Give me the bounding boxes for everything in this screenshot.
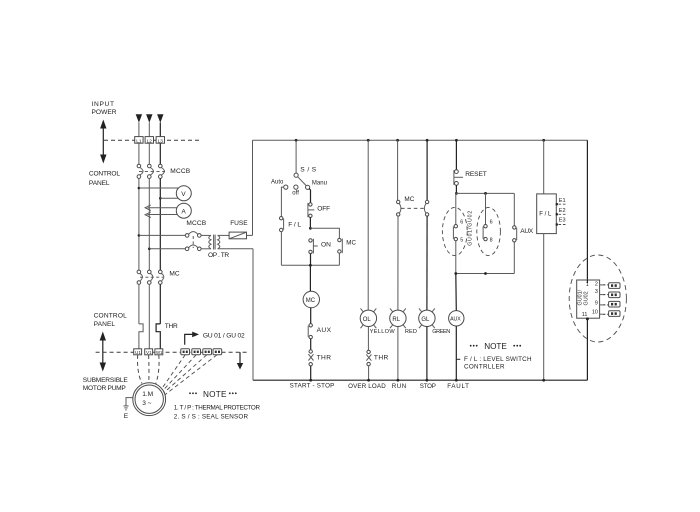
wire F/L column lower (543, 234, 545, 381)
pushbutton RESET (454, 170, 463, 186)
svg-text:OFF: OFF (317, 206, 330, 213)
wire stop column upper (426, 140, 428, 200)
node fault column top (455, 139, 458, 142)
wire run column upper (397, 140, 399, 200)
wire L2 to MCCB (148, 143, 150, 164)
wire voltmeter upper lead (139, 187, 178, 189)
label SUBMERSIBLE MOTOR PUMP (83, 377, 129, 392)
wire RESET to parallel group (455, 185, 457, 193)
svg-text:MCCB: MCCB (170, 168, 190, 175)
wire RL to bottom rail (397, 327, 399, 381)
wire aux contact branch lower (513, 242, 515, 274)
svg-text:INPUT: INPUT (92, 101, 115, 108)
wire L3 to MCCB (159, 143, 161, 164)
pump boundary dashed line (96, 351, 247, 353)
thermal relay THR element phase3 (156, 324, 160, 349)
contact MC (hold) (338, 238, 343, 253)
svg-text:POWER: POWER (92, 109, 117, 116)
wire auto branch lower (280, 232, 282, 266)
wire MC coil to AUX (310, 308, 312, 324)
label CONTROL PANEL (top) (89, 170, 120, 187)
node fault bottom (455, 379, 458, 382)
current transformer arrows on phase 2 (145, 205, 151, 218)
svg-text:PANEL: PANEL (94, 321, 116, 328)
svg-text:GREEN: GREEN (432, 329, 450, 335)
node run column top (396, 139, 399, 142)
terminal L2 (145, 137, 153, 145)
svg-text:FAULT: FAULT (447, 383, 469, 390)
contactor MC pole 1 (137, 270, 142, 284)
dashed lead pin 9 (603, 304, 609, 306)
wire THR to bottom rail (310, 366, 312, 380)
node stop column top (426, 139, 429, 142)
lamp OL yellow (360, 308, 376, 328)
control breaker MCCB pole 1 (185, 232, 201, 238)
svg-text:PANEL: PANEL (89, 180, 110, 187)
node V tap phase3 (159, 197, 162, 200)
wire fault contact 1 upper (455, 193, 457, 224)
svg-text:2: 2 (595, 282, 598, 288)
control ladder left edge lower (252, 249, 254, 380)
svg-text:AUX: AUX (450, 317, 461, 323)
svg-text:GU01/GU02: GU01/GU02 (467, 211, 473, 246)
motor 1M (133, 383, 166, 416)
terminal L3 (156, 137, 164, 145)
svg-text:1: 1 (586, 282, 589, 288)
svg-text:THR: THR (165, 323, 178, 330)
wire phase2 MC to terminal (148, 284, 150, 349)
svg-text:AUX: AUX (317, 327, 332, 334)
svg-text:CONTROL: CONTROL (94, 312, 128, 319)
contact MC (stop) (424, 200, 428, 216)
wire L2 MCCB to MC (148, 178, 150, 270)
wire parallel top bus (310, 228, 339, 238)
svg-text:V1: V1 (146, 350, 152, 355)
boundary down arrow (237, 352, 243, 369)
svg-text:U1: U1 (135, 350, 141, 355)
svg-text:3: 3 (595, 289, 598, 295)
wire through connector (top stub) (586, 280, 588, 283)
contact F/L (auto) (280, 217, 284, 232)
selector contact off (294, 185, 298, 189)
contact THR (start-stop) (308, 350, 313, 366)
node overload bottom (367, 379, 370, 382)
svg-text:S / S: S / S (300, 167, 316, 174)
wire OFF to junction (309, 218, 311, 229)
svg-text:6: 6 (490, 219, 493, 225)
dashed ellipse GU contact 1 (442, 207, 467, 255)
wire transformer secondary bottom to ladder bottom rail (218, 248, 253, 250)
node parallel top middle (484, 192, 487, 195)
node connector bottom (586, 317, 589, 320)
svg-text:RED: RED (405, 329, 417, 335)
wire parallel group bottom bus (456, 273, 515, 275)
connector box GU01/GU02 (577, 280, 600, 318)
contactor MC link dashes (140, 276, 163, 278)
wire phase2 to control MCCB (149, 248, 185, 250)
svg-text:E1: E1 (559, 198, 566, 204)
wire L1 MCCB to MC (138, 178, 140, 270)
pin 9 (595, 300, 603, 306)
wire sensor lead 1 (162, 355, 185, 389)
svg-text:FUSE: FUSE (230, 220, 248, 227)
svg-text:A: A (181, 208, 186, 215)
svg-text:CONTROL: CONTROL (89, 170, 120, 177)
node F/L column top (542, 139, 545, 142)
svg-text:GU02: GU02 (584, 291, 590, 305)
input power / control panel boundary double arrow (100, 120, 106, 164)
control ladder top rail (253, 139, 588, 141)
svg-text:START - STOP: START - STOP (290, 383, 335, 390)
contactor MC pole 2 (148, 270, 153, 284)
control breaker link dashes (192, 236, 194, 248)
svg-text:E3: E3 (559, 218, 566, 224)
wire GL to bottom rail (426, 327, 428, 381)
node F/L bottom (542, 379, 545, 382)
transformer OP.TR (209, 235, 220, 250)
sensor terminal 2 (192, 349, 201, 355)
svg-text:W1: W1 (156, 350, 163, 355)
wire THR to bottom rail (overload) (368, 366, 370, 380)
relay AUX (449, 311, 464, 326)
dashed lead pin 3 (603, 294, 609, 296)
pushbutton ON (309, 239, 318, 254)
svg-text:F / L : LEVEL SWITCH: F / L : LEVEL SWITCH (464, 356, 532, 363)
node parallel group top left (455, 192, 458, 195)
svg-text:MC: MC (404, 196, 414, 203)
wire transformer secondary top to fuse (218, 234, 230, 236)
electrode pin E3 (556, 218, 566, 226)
coil MC (303, 291, 319, 307)
wire fault contact 1 lower (455, 241, 457, 274)
svg-text:E: E (124, 413, 129, 420)
incoming supply arrow L1 (136, 114, 142, 136)
note dash mark (457, 358, 461, 360)
wire auto branch (281, 187, 283, 216)
svg-text:STOP: STOP (420, 383, 436, 390)
svg-text:MOTOR PUMP: MOTOR PUMP (83, 385, 127, 392)
wire stop column lower (426, 216, 428, 310)
terminal W1 (155, 349, 163, 355)
svg-text:MC: MC (306, 298, 316, 304)
svg-text:NOTE: NOTE (203, 390, 227, 399)
wire phase1 MC to THR (138, 284, 140, 324)
wire motor lead V (148, 355, 150, 383)
wire sensor lead 3 (164, 355, 207, 393)
main breaker MCCB pole 3 (159, 164, 165, 178)
svg-text:THR: THR (374, 354, 389, 361)
wire ammeter upper lead (148, 207, 178, 209)
control ladder bottom rail (253, 379, 587, 381)
contact AUX (fault) (513, 226, 517, 242)
svg-text:RESET: RESET (465, 171, 487, 178)
connector terminal 3 (609, 301, 620, 307)
pin 3 (595, 289, 603, 295)
terminal U1 (134, 349, 142, 355)
arrow to GU 01 / GU 02 sensors (185, 332, 199, 345)
main breaker MCCB pole 2 (148, 164, 154, 178)
wire phase1 to control MCCB (139, 234, 186, 236)
panel boundary dashed line (top) (104, 139, 199, 141)
level switch controller F/L box (537, 194, 557, 234)
ammeter A (176, 203, 191, 218)
svg-text:OVER LOAD: OVER LOAD (348, 383, 386, 390)
wire parallel group top bus (456, 192, 515, 194)
wire breaker to transformer primary top (201, 234, 211, 236)
contact AUX (start-stop) (308, 324, 312, 339)
electrode pin E1 (556, 198, 566, 205)
svg-text:CONTRLLER: CONTRLLER (464, 363, 505, 370)
control breaker MCCB pole 2 (185, 245, 201, 251)
connector terminal 2 (609, 292, 620, 298)
pushbutton OFF (308, 203, 314, 218)
wire junction to MC coil (309, 265, 311, 291)
sensor terminal 1 (181, 349, 190, 355)
wire ammeter lower lead (148, 214, 178, 216)
svg-text:1. T / P : THERMAL PROTECTOR: 1. T / P : THERMAL PROTECTOR (174, 405, 261, 412)
dashed lead pin 10 (603, 313, 609, 315)
incoming supply arrow L3 (157, 114, 163, 136)
wire voltmeter lower lead (160, 197, 178, 199)
svg-text:MC: MC (169, 270, 179, 277)
svg-text:Auto: Auto (271, 179, 284, 185)
svg-text:V: V (181, 191, 186, 198)
control ladder left edge upper (252, 140, 254, 235)
svg-text:3 ~: 3 ~ (142, 400, 151, 407)
svg-text:9: 9 (595, 300, 598, 306)
svg-text:8: 8 (490, 237, 493, 243)
wire phase3 MC to THR (159, 284, 161, 324)
svg-text:RL: RL (392, 317, 400, 323)
svg-text:F / L: F / L (288, 221, 301, 228)
wire parallel bottom bus (281, 264, 339, 266)
MCCB mechanical link dashes (139, 170, 165, 172)
svg-text:10: 10 (592, 310, 598, 316)
wire L3 MCCB to MC (159, 178, 161, 270)
svg-text:5: 5 (460, 237, 463, 243)
dashed ellipse GU contact 2 (477, 207, 501, 255)
svg-text:OP . TR: OP . TR (208, 252, 229, 259)
svg-text:2. S / S : SEAL SENSOR: 2. S / S : SEAL SENSOR (174, 413, 249, 420)
svg-text:MCCB: MCCB (186, 220, 206, 227)
node parallel bottom middle (484, 272, 487, 275)
svg-text:SUBMERSIBLE: SUBMERSIBLE (83, 377, 129, 384)
wire F/L column upper (543, 140, 545, 194)
svg-text:RUN: RUN (392, 383, 407, 390)
contactor MC pole 3 (159, 270, 164, 284)
control ladder right edge upper (586, 140, 588, 281)
svg-text:Manu: Manu (312, 181, 327, 187)
contact GU 6-5 (453, 225, 457, 241)
wire overload column (367, 140, 369, 310)
wire motor lead U (138, 355, 142, 384)
node control tap phase2 (148, 248, 151, 251)
node start-stop column top (295, 139, 298, 142)
node control tap phase1 (138, 234, 141, 237)
connector terminal 1 (609, 283, 620, 289)
lamp RL red (390, 308, 406, 328)
wire MC contact lower (338, 253, 340, 265)
wire AUX relay to bottom rail (455, 326, 457, 380)
wire run column lower (397, 216, 399, 310)
sensor terminal 3 (203, 349, 212, 355)
node V tap phase1 (138, 187, 141, 190)
wire sensor lead 2 (163, 355, 196, 391)
pin 2 (595, 282, 603, 288)
wire ON lower (310, 254, 312, 266)
svg-text:THR: THR (317, 355, 332, 362)
ground E (123, 398, 132, 420)
MC contacts link dashes (401, 207, 425, 209)
svg-text:off: off (292, 191, 299, 197)
control panel / pump boundary double arrow (100, 332, 106, 372)
svg-text:YELLOW: YELLOW (370, 329, 396, 335)
selector contact Auto (284, 185, 288, 189)
terminal V1 (145, 349, 153, 355)
control ladder right edge lower (586, 317, 588, 380)
svg-text:GL: GL (421, 317, 430, 323)
node start-stop bottom (309, 379, 312, 382)
svg-text:ON: ON (321, 241, 331, 248)
wire manu branch (309, 189, 310, 203)
thermal relay THR element phase1 (139, 324, 143, 349)
svg-text:6: 6 (460, 219, 463, 225)
wire fault column to RESET (455, 140, 457, 169)
pin 10 (592, 310, 603, 316)
wire to S/S switch (295, 140, 297, 173)
voltmeter V (176, 186, 191, 201)
node run bottom (397, 379, 400, 382)
svg-text:F / L: F / L (539, 211, 552, 217)
electrode pin E2 (556, 208, 566, 216)
node stop bottom (426, 379, 429, 382)
contact THR (overload) (366, 350, 371, 366)
svg-text:NOTE: NOTE (484, 342, 507, 351)
sensor terminal 4 (213, 349, 222, 355)
switch S/S selector common (294, 173, 306, 186)
svg-text:MC: MC (346, 240, 356, 247)
wire AUX to THR (310, 339, 312, 350)
label INPUT POWER (92, 101, 117, 116)
terminal L1 (135, 137, 143, 145)
svg-text:GU 01 / GU 02: GU 01 / GU 02 (203, 332, 245, 339)
node parallel bottom (309, 264, 312, 267)
wire OL to THR (367, 327, 369, 351)
svg-text:OL: OL (363, 317, 372, 323)
node overload column top (367, 139, 370, 142)
dashed lead pin 2 (603, 284, 609, 286)
wire motor lead W (156, 355, 159, 384)
wire fuse to control ladder (247, 234, 253, 236)
node ON/MC parallel top (309, 227, 312, 230)
wire sensor lead 4 (165, 355, 217, 395)
wire L1 to MCCB (138, 143, 140, 164)
node parallel bottom left (454, 272, 457, 275)
lamp GL green (419, 308, 435, 328)
svg-text:AUX: AUX (520, 228, 533, 235)
note header (right) (470, 342, 521, 351)
main breaker MCCB pole 1 (137, 164, 143, 178)
svg-text:E2: E2 (559, 208, 566, 214)
svg-text:1.M: 1.M (142, 391, 153, 398)
svg-text:11: 11 (582, 312, 588, 318)
wire breaker to transformer primary bottom (201, 248, 211, 250)
incoming supply arrow L2 (146, 114, 152, 136)
wire fault contact 2 upper (485, 193, 487, 224)
wire to AUX relay (455, 274, 458, 311)
dashed ellipse GU connector (569, 255, 626, 342)
wire aux contact branch upper (513, 193, 515, 225)
label CONTROL PANEL (lower) (94, 312, 128, 328)
contact GU 6-8 (483, 225, 487, 241)
connector terminal 4 (609, 311, 620, 317)
selector contact Manu (306, 185, 310, 189)
contact MC (run) (397, 200, 401, 216)
fuse (229, 232, 246, 239)
note header (left) (189, 390, 237, 399)
